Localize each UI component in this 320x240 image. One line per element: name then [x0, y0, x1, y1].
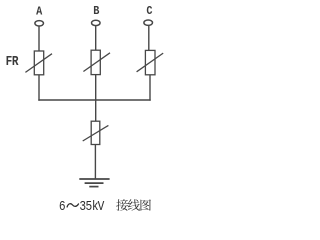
wire: [38, 26, 40, 51]
wire: [95, 100, 97, 121]
arrester FR phase B: [83, 50, 110, 74]
caption character 图: [140, 199, 150, 210]
arrester FR phase A: [25, 51, 52, 75]
terminal A: [35, 21, 44, 26]
svg-text:B: B: [93, 6, 99, 19]
terminal C: [144, 20, 153, 25]
caption text 6~35kV: [59, 198, 105, 215]
ground: [79, 179, 109, 187]
svg-text:C: C: [146, 6, 152, 19]
arrester FR neutral: [83, 121, 109, 144]
arrester FR phase C: [137, 50, 164, 74]
wire: [149, 75, 151, 101]
caption character 线: [128, 199, 140, 211]
wire: [148, 26, 150, 51]
svg-text:FR: FR: [6, 54, 19, 69]
wire: [94, 145, 96, 180]
svg-text:635kV: 635kV: [59, 198, 105, 215]
svg-text:A: A: [36, 6, 42, 19]
bus wire: [38, 99, 150, 101]
wire: [38, 75, 40, 101]
wire: [95, 75, 97, 100]
caption character 接: [116, 199, 128, 211]
terminal B: [92, 20, 101, 25]
wire: [95, 26, 97, 50]
